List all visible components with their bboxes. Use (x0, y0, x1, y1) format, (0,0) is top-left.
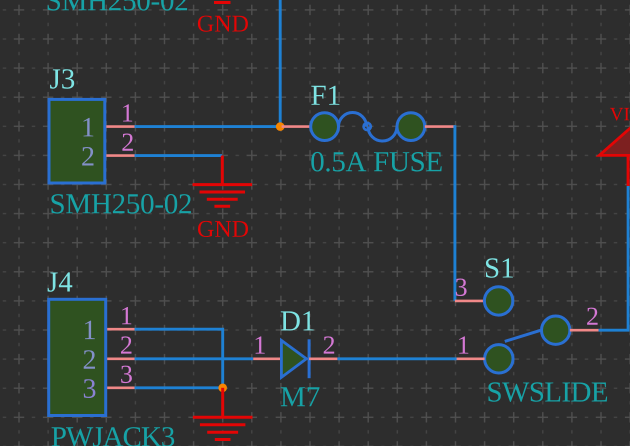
connector J4 body (49, 299, 106, 415)
fuse F1 body (311, 113, 425, 141)
diode D1 pin 2 stub (309, 357, 337, 360)
fuse F1 pin 2 stub (425, 125, 455, 128)
J4 pin name 3 (84, 379, 96, 398)
D1 pin number 2 (324, 336, 335, 353)
netflag VI label (610, 108, 629, 121)
value label M7 (281, 387, 320, 406)
value label SMH250-02 (top, cut off) (48, 0, 188, 11)
wire J4 pin2 to D1 (135, 357, 254, 360)
switch S1 pin 2 pad (542, 316, 570, 344)
J3 pin number 2 (122, 134, 132, 151)
switch S1 pin 3 pad (484, 287, 512, 315)
J3 pin 1 stub (106, 125, 134, 128)
junction B (218, 384, 227, 393)
D1 pin number 1 (256, 336, 265, 353)
wire F1 to S1 pin3 (453, 125, 456, 301)
value label PWJACK3 (52, 427, 175, 446)
ground GND1 label (198, 221, 248, 237)
designator D1 (281, 311, 314, 330)
J3 pin number 1 (123, 104, 132, 121)
wire J3 pin1 to junction A (135, 125, 281, 128)
S1 pin 3 stub (455, 300, 485, 303)
designator F1 (311, 86, 339, 105)
switch S1 lever (505, 330, 541, 341)
wire S1 pin2 to VI flag (599, 186, 629, 330)
ground GND1 (193, 156, 253, 207)
wire J4 pin3 to junction B (135, 386, 223, 389)
J4 pin 2 stub (107, 357, 134, 360)
ground GND3 (top, partially visible) (214, 1, 231, 4)
J4 pin 3 stub (107, 386, 134, 389)
S1 pin number 1 (459, 336, 468, 353)
value label SMH250-02 (J3) (51, 194, 191, 214)
switch S1 pin 1 pad (485, 345, 513, 373)
J4 pin name 2 (84, 350, 95, 369)
J3 pin name 1 (84, 118, 94, 136)
S1 pin number 2 (587, 308, 598, 325)
diode D1 body (281, 339, 309, 378)
wire J3 pin2 to GND1 (135, 154, 222, 157)
value label 0.5A FUSE (311, 152, 441, 172)
junction A (276, 122, 285, 131)
S1 pin 1 stub (454, 357, 485, 360)
S1 pin number 3 (456, 279, 467, 297)
J3 pin name 2 (82, 147, 93, 166)
ground GND2 (193, 388, 253, 440)
J4 pin 1 stub (107, 328, 134, 331)
fuse F1 pin 1 stub (282, 125, 311, 128)
wire D1 to S1 pin1 (337, 357, 456, 360)
designator S1 (486, 258, 513, 278)
S1 pin 2 stub (570, 329, 599, 332)
J4 pin number 1 (122, 307, 131, 324)
connector J3 body (49, 99, 105, 183)
designator J3 (50, 69, 74, 89)
netflag VI arrow (599, 124, 630, 155)
diode D1 pin 1 stub (253, 357, 281, 360)
netflag VI stem (627, 155, 630, 186)
designator J4 (48, 272, 73, 291)
ground GND3 label (198, 16, 248, 32)
value label SWSLIDE (488, 382, 607, 402)
J3 pin 2 stub (106, 154, 134, 157)
wire from top into junction A (279, 0, 282, 127)
J4 pin number 3 (121, 366, 132, 384)
J4 pin name 1 (85, 321, 95, 340)
J4 pin number 2 (121, 336, 132, 353)
wire J4 pin1 down to junction B (135, 329, 223, 388)
